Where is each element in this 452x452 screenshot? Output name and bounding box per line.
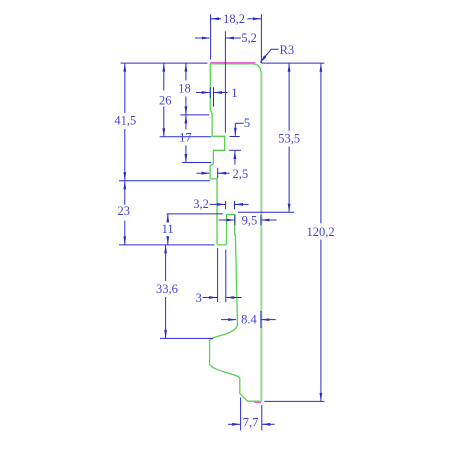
dim 120,2 line xyxy=(320,63,322,223)
dim 53,5 line xyxy=(288,63,290,130)
arrow 3 right xyxy=(226,296,235,299)
svg-text:9,5: 9,5 xyxy=(242,213,258,227)
arrow R3 leader xyxy=(260,55,267,62)
dim 11 line xyxy=(167,214,169,219)
arrow 5 down xyxy=(234,128,237,137)
ext line 41.5/23 boundary xyxy=(119,180,210,182)
dim 3,2 tick1 xyxy=(225,201,227,209)
dim 18,2 ext left xyxy=(210,14,212,59)
arrows 23 xyxy=(123,181,126,190)
dim 3,2 left tail xyxy=(210,203,225,205)
profile outline left/bottom xyxy=(209,64,260,401)
dim 1 tick1 xyxy=(209,87,211,98)
arrow 7,7 right xyxy=(262,423,271,426)
arrows 26 xyxy=(162,63,165,72)
svg-text:120,2: 120,2 xyxy=(307,225,335,239)
dim 3,2 tick2 xyxy=(234,201,236,209)
svg-text:41,5: 41,5 xyxy=(114,113,136,127)
arrow 9,5 left xyxy=(226,219,235,222)
dim 7,7 right tail xyxy=(262,423,275,425)
dim 9,5 tick2 xyxy=(260,215,262,225)
dim 9,5 tick1 xyxy=(234,215,236,225)
ext line 33.6 bottom xyxy=(160,337,213,339)
ext line 11 top xyxy=(167,213,223,215)
dim 9,5 left tail xyxy=(219,219,235,221)
svg-text:18,2: 18,2 xyxy=(223,12,245,26)
ext line 17 bottom xyxy=(182,162,211,164)
dim 7,7 left tail xyxy=(228,423,240,425)
arrow 7,7 left xyxy=(232,423,241,426)
arrows 53,5 xyxy=(288,63,291,72)
ext line 18 bottom xyxy=(180,114,209,116)
svg-text:2,5: 2,5 xyxy=(232,167,248,181)
arrows 18 xyxy=(185,63,188,72)
dim 1 left tail xyxy=(196,92,210,94)
dim 9,5 right tail xyxy=(261,219,277,221)
dim 8,4 left tail xyxy=(221,319,236,321)
dim 3 tick1 xyxy=(217,248,219,302)
arrow 8,4 left xyxy=(228,318,237,321)
svg-text:17: 17 xyxy=(179,131,192,145)
svg-text:3,2: 3,2 xyxy=(193,197,209,211)
arrows 18,2 xyxy=(211,17,220,20)
svg-text:53,5: 53,5 xyxy=(278,132,300,146)
arrow 5,2 left (points right) xyxy=(202,37,211,40)
arrow 5,2 right (points left at tick) xyxy=(225,37,234,40)
arrow 2,5 left xyxy=(202,172,211,175)
svg-text:5: 5 xyxy=(244,116,250,130)
ext line 26 bottom xyxy=(160,136,212,138)
svg-text:5,2: 5,2 xyxy=(241,31,257,45)
R3 leader xyxy=(260,49,278,62)
svg-text:23: 23 xyxy=(118,204,131,218)
svg-text:3: 3 xyxy=(196,291,202,305)
dim 5,2 left tail xyxy=(195,37,210,39)
dim 2,5 left tail xyxy=(197,172,210,174)
magenta bottom edge xyxy=(254,401,261,403)
dim 3 right tail xyxy=(226,297,242,299)
arrows 11 xyxy=(166,214,169,223)
dim 5,2 tick/ext xyxy=(224,31,226,132)
dim 3,2 right tail xyxy=(235,203,249,205)
dim 2,5 tick xyxy=(217,168,219,179)
ext line 120.2 bottom xyxy=(264,400,324,402)
dim 5 lower arrow line xyxy=(234,151,236,165)
dim 3 left tail xyxy=(203,297,217,299)
arrows 17 xyxy=(185,115,188,124)
profile right edge pale green xyxy=(260,72,262,401)
dim 7,7 tick1 xyxy=(240,397,242,430)
magenta top edge xyxy=(210,62,255,64)
dim 8,4 tick2 xyxy=(260,311,262,328)
svg-text:18: 18 xyxy=(178,82,191,96)
arrows 41,5 xyxy=(123,63,126,72)
profile right edge gray xyxy=(261,71,263,402)
arrow 5 up xyxy=(234,151,237,160)
svg-text:33,6: 33,6 xyxy=(156,282,178,296)
svg-text:8.4: 8.4 xyxy=(241,312,257,326)
svg-text:R3: R3 xyxy=(280,43,295,57)
dim 18,2 ext right xyxy=(260,14,262,63)
dim 23 line xyxy=(124,181,126,205)
profile top edge with R3 corner xyxy=(210,64,261,72)
dim 17 line xyxy=(185,115,187,130)
svg-text:1: 1 xyxy=(231,86,237,100)
ext line 53.5 bottom xyxy=(238,211,294,213)
dim 18,2 line xyxy=(211,18,221,20)
dim 5 bracket xyxy=(234,123,236,136)
svg-text:26: 26 xyxy=(159,94,172,108)
ext seg 5 top xyxy=(230,136,240,138)
dim 33,6 line xyxy=(165,245,167,281)
dim 2,5 right tail xyxy=(218,172,230,174)
arrow 1 left xyxy=(202,91,211,94)
dim 5,2 right tail xyxy=(225,37,240,39)
dim 3 tick2 xyxy=(225,250,227,303)
ext seg 5 bottom xyxy=(229,149,241,151)
arrow 1 right xyxy=(214,91,223,94)
arrows 120,2 xyxy=(320,63,323,72)
arrow 8,4 right xyxy=(261,318,270,321)
ext line top-right xyxy=(262,62,325,64)
dim 26 line xyxy=(163,63,165,90)
dim 41,5 line xyxy=(124,63,126,113)
dim 18 line xyxy=(185,63,187,80)
arrow 2,5 right xyxy=(218,172,227,175)
arrow 3,2 left xyxy=(217,203,226,206)
svg-text:11: 11 xyxy=(162,222,174,236)
dim 1 tick2 xyxy=(213,87,215,106)
ext line top-left xyxy=(121,62,208,64)
svg-text:7,7: 7,7 xyxy=(243,415,259,429)
arrow 3 left xyxy=(209,296,218,299)
arrow 3,2 right xyxy=(235,203,244,206)
dim 1 right tail xyxy=(214,92,228,94)
ext line 23/11 bottom xyxy=(119,244,215,246)
dim 7,7 tick2 xyxy=(261,405,263,430)
dim 8,4 right tail xyxy=(261,319,276,321)
arrows 33,6 xyxy=(164,245,167,254)
arrow 9,5 right xyxy=(261,219,270,222)
